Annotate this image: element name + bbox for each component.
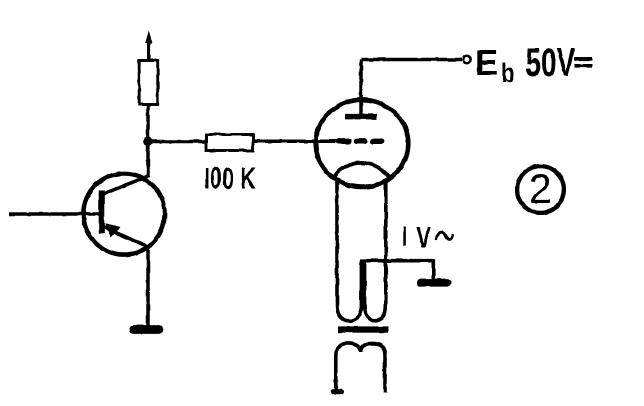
svg-text:2: 2 <box>529 165 552 212</box>
svg-text:I: I <box>401 221 409 252</box>
svg-text:b: b <box>501 59 514 89</box>
svg-text:E: E <box>475 42 498 83</box>
svg-text:50V: 50V <box>526 41 576 85</box>
svg-text:I00 K: I00 K <box>204 161 256 196</box>
svg-text:V: V <box>416 222 431 254</box>
